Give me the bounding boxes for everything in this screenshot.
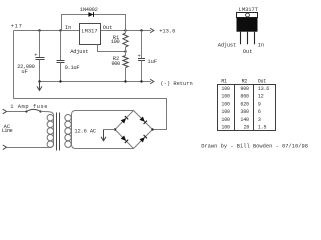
junction dot R2 bottom bbox=[124, 80, 126, 82]
diode D1 1N4002 bbox=[88, 12, 93, 17]
transformer T1 secondary winding bbox=[65, 114, 72, 147]
table row 4 bbox=[221, 109, 261, 115]
svg-text:900: 900 bbox=[111, 61, 120, 67]
svg-text:+: + bbox=[34, 53, 37, 59]
label 22,000 bbox=[17, 64, 34, 70]
pin label Adjust bbox=[70, 49, 88, 55]
wire secondary bottom lead bbox=[72, 145, 134, 149]
wire bridge positive feed loop bbox=[14, 99, 167, 130]
table row 6 bbox=[221, 125, 266, 131]
svg-text:In: In bbox=[258, 43, 264, 49]
svg-text:R2: R2 bbox=[242, 78, 248, 84]
svg-text:13.6: 13.6 bbox=[258, 86, 269, 92]
transistor package TO-220 LM317T bbox=[237, 13, 258, 45]
transformer T1 primary winding bbox=[47, 115, 53, 148]
table header R2 bbox=[242, 78, 248, 84]
label 0.1uF bbox=[65, 65, 80, 71]
pin label In bbox=[65, 25, 71, 31]
op-amp U1 LM317 regulator box bbox=[80, 24, 101, 45]
label 1N4002 bbox=[80, 7, 98, 13]
svg-text:R1: R1 bbox=[221, 78, 227, 84]
capacitor C2 0.1uF bbox=[57, 31, 65, 82]
label 100 bbox=[111, 39, 120, 45]
svg-text:100: 100 bbox=[221, 102, 230, 108]
svg-text:0.1uF: 0.1uF bbox=[65, 65, 80, 71]
svg-text:20: 20 bbox=[244, 125, 250, 131]
label LM317T package bbox=[239, 7, 259, 13]
wire AC top lead bbox=[7, 111, 27, 113]
svg-text:Out: Out bbox=[258, 78, 267, 84]
svg-text:Out: Out bbox=[103, 25, 113, 31]
svg-text:100: 100 bbox=[221, 125, 230, 131]
svg-text:12: 12 bbox=[258, 94, 264, 100]
pin label Adjust (package) bbox=[218, 43, 236, 49]
label 1uF bbox=[147, 59, 157, 65]
node (-) Return label bbox=[160, 81, 192, 87]
svg-text:+13.6: +13.6 bbox=[159, 28, 175, 34]
svg-text:12.6 AC: 12.6 AC bbox=[74, 128, 96, 134]
svg-text:100: 100 bbox=[111, 39, 120, 45]
wire AC bottom lead bbox=[7, 145, 54, 148]
capacitor C1 22000uF bbox=[34, 31, 44, 82]
label credit line bbox=[201, 143, 308, 149]
svg-text:+17: +17 bbox=[11, 23, 23, 29]
wire secondary top lead bbox=[72, 111, 134, 115]
table row 3 bbox=[221, 102, 261, 108]
table row 2 bbox=[221, 94, 263, 100]
fuse F1 bbox=[25, 109, 41, 112]
svg-text:Line: Line bbox=[2, 128, 13, 134]
wire fuse to primary bbox=[41, 111, 54, 115]
node AC line terminal bottom bbox=[3, 145, 7, 150]
wire bottom return rail bbox=[40, 81, 151, 83]
wire arrow to +13.6 output bbox=[150, 28, 154, 32]
svg-text:Adjust: Adjust bbox=[70, 49, 88, 55]
resistor R2 bbox=[123, 52, 128, 82]
wire bridge negative lead bbox=[104, 129, 116, 131]
svg-text:uF: uF bbox=[21, 69, 27, 75]
svg-text:1.5: 1.5 bbox=[258, 125, 267, 131]
svg-text:Drawn by - Bill Bowden - 07/10: Drawn by - Bill Bowden - 07/10/98 bbox=[201, 143, 308, 149]
table header R1 bbox=[221, 78, 227, 84]
ground symbol bridge bbox=[101, 130, 106, 141]
ground symbol left bbox=[37, 82, 42, 91]
svg-text:+: + bbox=[138, 54, 141, 60]
junction dot diode-R1 node bbox=[124, 29, 126, 31]
diode D3 bridge bottom-left bbox=[121, 136, 129, 144]
pin label Out (package) bbox=[243, 49, 253, 55]
label 1 Amp fuse bbox=[10, 104, 48, 110]
svg-text:100: 100 bbox=[221, 117, 230, 123]
junction dot cap22000 bottom bbox=[38, 80, 40, 82]
svg-text:(-) Return: (-) Return bbox=[160, 81, 192, 87]
svg-text:LM317: LM317 bbox=[81, 29, 97, 35]
svg-text:620: 620 bbox=[240, 102, 249, 108]
junction dot bridge right corner bbox=[151, 128, 153, 130]
svg-text:900: 900 bbox=[240, 86, 249, 92]
svg-text:140: 140 bbox=[240, 117, 249, 123]
junction dot cap0.1 bottom bbox=[59, 80, 61, 82]
svg-text:3: 3 bbox=[258, 117, 261, 123]
junction dot 1uF tap bbox=[140, 29, 142, 31]
svg-text:9: 9 bbox=[258, 102, 261, 108]
wire adjust pin bbox=[98, 45, 126, 52]
node +17 label bbox=[11, 23, 23, 29]
transformer T1 core bbox=[57, 113, 60, 151]
junction dot adjust-R1-R2 node bbox=[124, 50, 126, 52]
label AC bbox=[4, 124, 10, 130]
svg-text:Adjust: Adjust bbox=[218, 43, 236, 49]
svg-text:100: 100 bbox=[221, 109, 230, 115]
svg-text:380: 380 bbox=[240, 109, 249, 115]
label 900 bbox=[111, 61, 120, 67]
svg-text:1 Amp fuse: 1 Amp fuse bbox=[10, 104, 48, 110]
pin label In (package) bbox=[258, 43, 264, 49]
junction dot cap1uF bottom bbox=[140, 80, 142, 82]
svg-text:In: In bbox=[65, 25, 71, 31]
diode D2 bridge top-left bbox=[121, 116, 129, 124]
junction dot bridge left corner bbox=[114, 128, 116, 130]
label R2 bbox=[113, 56, 119, 62]
capacitor C3 1uF bbox=[138, 31, 145, 82]
junction dot 0.1uF tap bbox=[59, 29, 61, 31]
diode D4 bridge top-right bbox=[140, 117, 148, 125]
table header Out bbox=[258, 78, 267, 84]
table box resistor values bbox=[218, 85, 276, 131]
table row 1 bbox=[221, 86, 269, 92]
wire arrow return output bbox=[150, 79, 154, 83]
svg-text:6: 6 bbox=[258, 109, 261, 115]
label uF bbox=[21, 69, 27, 75]
svg-text:1uF: 1uF bbox=[147, 59, 157, 65]
label 12.6 AC bbox=[74, 128, 96, 134]
svg-text:1N4002: 1N4002 bbox=[80, 7, 98, 13]
pin label Out bbox=[103, 25, 113, 31]
label Line bbox=[2, 128, 13, 134]
svg-text:100: 100 bbox=[221, 94, 230, 100]
table row 5 bbox=[221, 117, 261, 123]
label R1 bbox=[113, 35, 119, 41]
resistor R1 bbox=[123, 31, 128, 52]
node AC line terminal top bbox=[3, 109, 7, 114]
wire left vertical from +17 rail down bbox=[13, 31, 15, 99]
bridge rectifier wires bbox=[115, 111, 153, 149]
wire diode bypass branch bbox=[62, 15, 126, 31]
wire top +17 rail bbox=[14, 30, 151, 32]
junction dot 22000uF tap bbox=[38, 29, 40, 31]
svg-text:860: 860 bbox=[240, 94, 249, 100]
svg-text:100: 100 bbox=[221, 86, 230, 92]
node +13.6 label bbox=[159, 28, 175, 34]
svg-text:Out: Out bbox=[243, 49, 253, 55]
diode D5 bridge bottom-right bbox=[140, 135, 148, 143]
